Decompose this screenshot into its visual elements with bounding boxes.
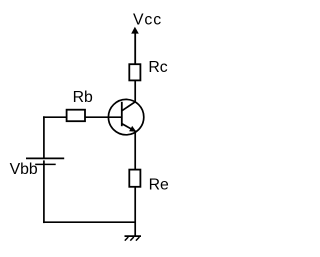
resistor Re xyxy=(129,170,140,187)
svg-text:Rb: Rb xyxy=(73,89,93,106)
battery Vbb positive plate xyxy=(26,157,64,159)
svg-text:Rc: Rc xyxy=(148,59,167,76)
ground xyxy=(125,236,142,241)
wire left vertical lower xyxy=(43,160,45,223)
wire emitter to Re xyxy=(134,132,136,170)
power Vcc arrow xyxy=(131,27,139,64)
wire left vertical upper xyxy=(43,116,45,158)
wire Re to ground xyxy=(134,187,136,236)
wire bottom xyxy=(43,221,135,223)
svg-text:Re: Re xyxy=(149,177,169,194)
wire Rc to Q1 collector xyxy=(134,80,136,102)
resistor Rc xyxy=(129,64,140,80)
svg-text:Vbb: Vbb xyxy=(10,161,38,178)
transistor Q1 xyxy=(108,99,143,134)
svg-text:Vcc: Vcc xyxy=(133,11,162,28)
battery Vbb negative plate xyxy=(35,163,56,165)
wire base xyxy=(43,116,122,118)
resistor Rb xyxy=(67,110,85,122)
